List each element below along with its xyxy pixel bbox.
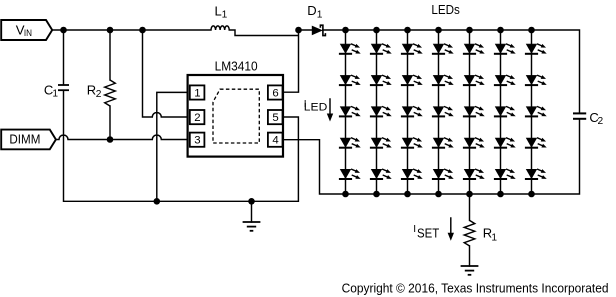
svg-text:4: 4 <box>272 135 278 147</box>
svg-text:LEDs: LEDs <box>431 2 460 17</box>
svg-text:2: 2 <box>96 89 102 100</box>
svg-text:LED: LED <box>304 101 328 113</box>
svg-text:LM3410: LM3410 <box>215 59 258 74</box>
svg-text:2: 2 <box>598 116 604 127</box>
svg-text:D: D <box>307 3 316 18</box>
svg-text:IN: IN <box>24 28 32 38</box>
svg-text:3: 3 <box>194 135 200 147</box>
svg-text:I: I <box>413 224 416 235</box>
svg-text:1: 1 <box>52 88 58 99</box>
svg-text:1: 1 <box>194 87 200 99</box>
svg-text:SET: SET <box>417 225 439 240</box>
svg-text:R: R <box>87 83 96 98</box>
svg-text:1: 1 <box>222 10 228 21</box>
svg-text:6: 6 <box>272 87 278 99</box>
svg-text:1: 1 <box>317 10 323 21</box>
svg-text:Copyright © 2016, Texas Instru: Copyright © 2016, Texas Instruments Inco… <box>342 281 609 296</box>
svg-text:5: 5 <box>272 112 278 124</box>
svg-text:1: 1 <box>491 232 497 243</box>
svg-text:2: 2 <box>194 112 200 124</box>
svg-text:DIMM: DIMM <box>9 132 40 147</box>
